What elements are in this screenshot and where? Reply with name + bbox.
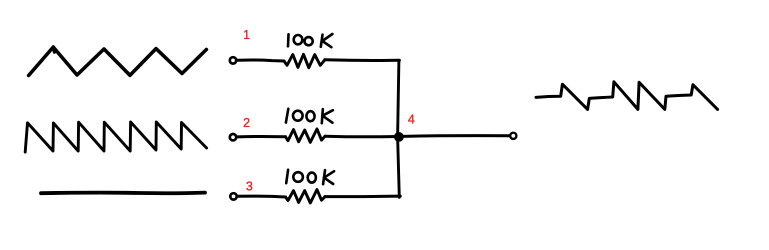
junction node 4	[394, 132, 404, 142]
resistor R2	[286, 129, 326, 143]
R2 value 100K	[286, 109, 333, 123]
wire R3 to bus	[325, 195, 400, 199]
terminal 2	[230, 134, 236, 140]
output summed waveform	[536, 82, 718, 110]
terminal 3	[230, 193, 236, 199]
R1 value 100K	[288, 34, 332, 47]
svg-text:2: 2	[243, 116, 250, 130]
output wire node4 to terminal	[403, 134, 510, 138]
sawtooth wave input 2	[25, 122, 206, 152]
terminal 1	[230, 57, 236, 63]
resistor R3	[286, 190, 326, 204]
wire terminal2 to R2	[237, 135, 285, 138]
wire terminal3 to R3	[238, 195, 286, 199]
wire R2 to node 4	[325, 135, 399, 139]
output terminal	[510, 133, 516, 139]
svg-text:3: 3	[246, 179, 253, 193]
R3 value 100K	[286, 170, 334, 184]
wire R1 to bus	[325, 58, 400, 62]
wire terminal1 to R1	[237, 60, 284, 61]
dc flat line input 3	[41, 191, 205, 195]
bus wire vertical	[398, 60, 400, 197]
svg-text:1: 1	[243, 28, 250, 42]
svg-text:4: 4	[408, 113, 415, 127]
resistor R1	[284, 54, 325, 68]
triangle wave input 1	[29, 47, 207, 76]
